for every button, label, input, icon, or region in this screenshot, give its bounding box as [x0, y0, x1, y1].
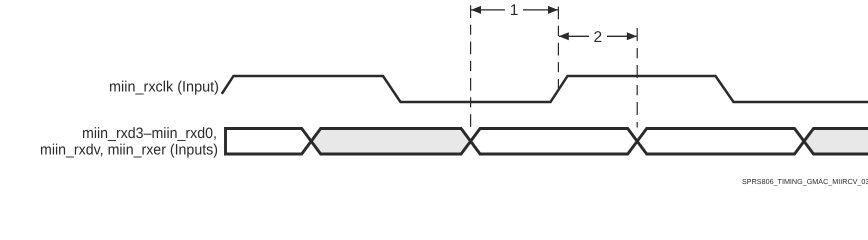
dashed reference line 1 (at first timing point x=470.6)	[470, 5, 472, 127]
dimension arrow 2 (parameter 2, between lines 2 and 3)	[559, 28, 637, 46]
dashed reference line 3 (at second timing point x=637.2)	[636, 28, 638, 128]
svg-text:SPRS806_TIMING_GMAC_MIIRCV_03: SPRS806_TIMING_GMAC_MIIRCV_03	[742, 177, 868, 186]
svg-text:1: 1	[510, 2, 519, 19]
label miin_rxd3-miin_rxd0, line 1	[82, 125, 217, 142]
bus waveform outline path B (bottom-start zigzag)	[226, 129, 868, 155]
dashed reference line 2 (at clock rising edge x=558.4)	[557, 7, 559, 89]
bus waveform left closing edge	[224, 127, 227, 156]
clock waveform miin_rxclk	[222, 76, 868, 102]
svg-text:miin_rxclk (Input): miin_rxclk (Input)	[109, 79, 219, 96]
label miin_rxclk (Input)	[109, 79, 219, 96]
svg-text:miin_rxdv, miin_rxer (Inputs): miin_rxdv, miin_rxer (Inputs)	[40, 142, 218, 159]
svg-text:2: 2	[593, 29, 602, 46]
bus data valid fill (last segment, grey, clipped at right edge)	[804, 129, 868, 155]
svg-text:miin_rxd3–miin_rxd0,: miin_rxd3–miin_rxd0,	[82, 125, 217, 142]
bus waveform outline path A (top-start zigzag)	[226, 129, 868, 155]
dimension arrow 1 (parameter 1, between lines 1 and 2)	[471, 2, 558, 19]
label miin_rxdv, miin_rxer (Inputs) line 2	[40, 142, 218, 159]
bus data valid fill (segment 2, grey)	[311, 129, 470, 155]
watermark figure id SPRS806_TIMING_GMAC_MIIRCV_03	[742, 177, 868, 186]
